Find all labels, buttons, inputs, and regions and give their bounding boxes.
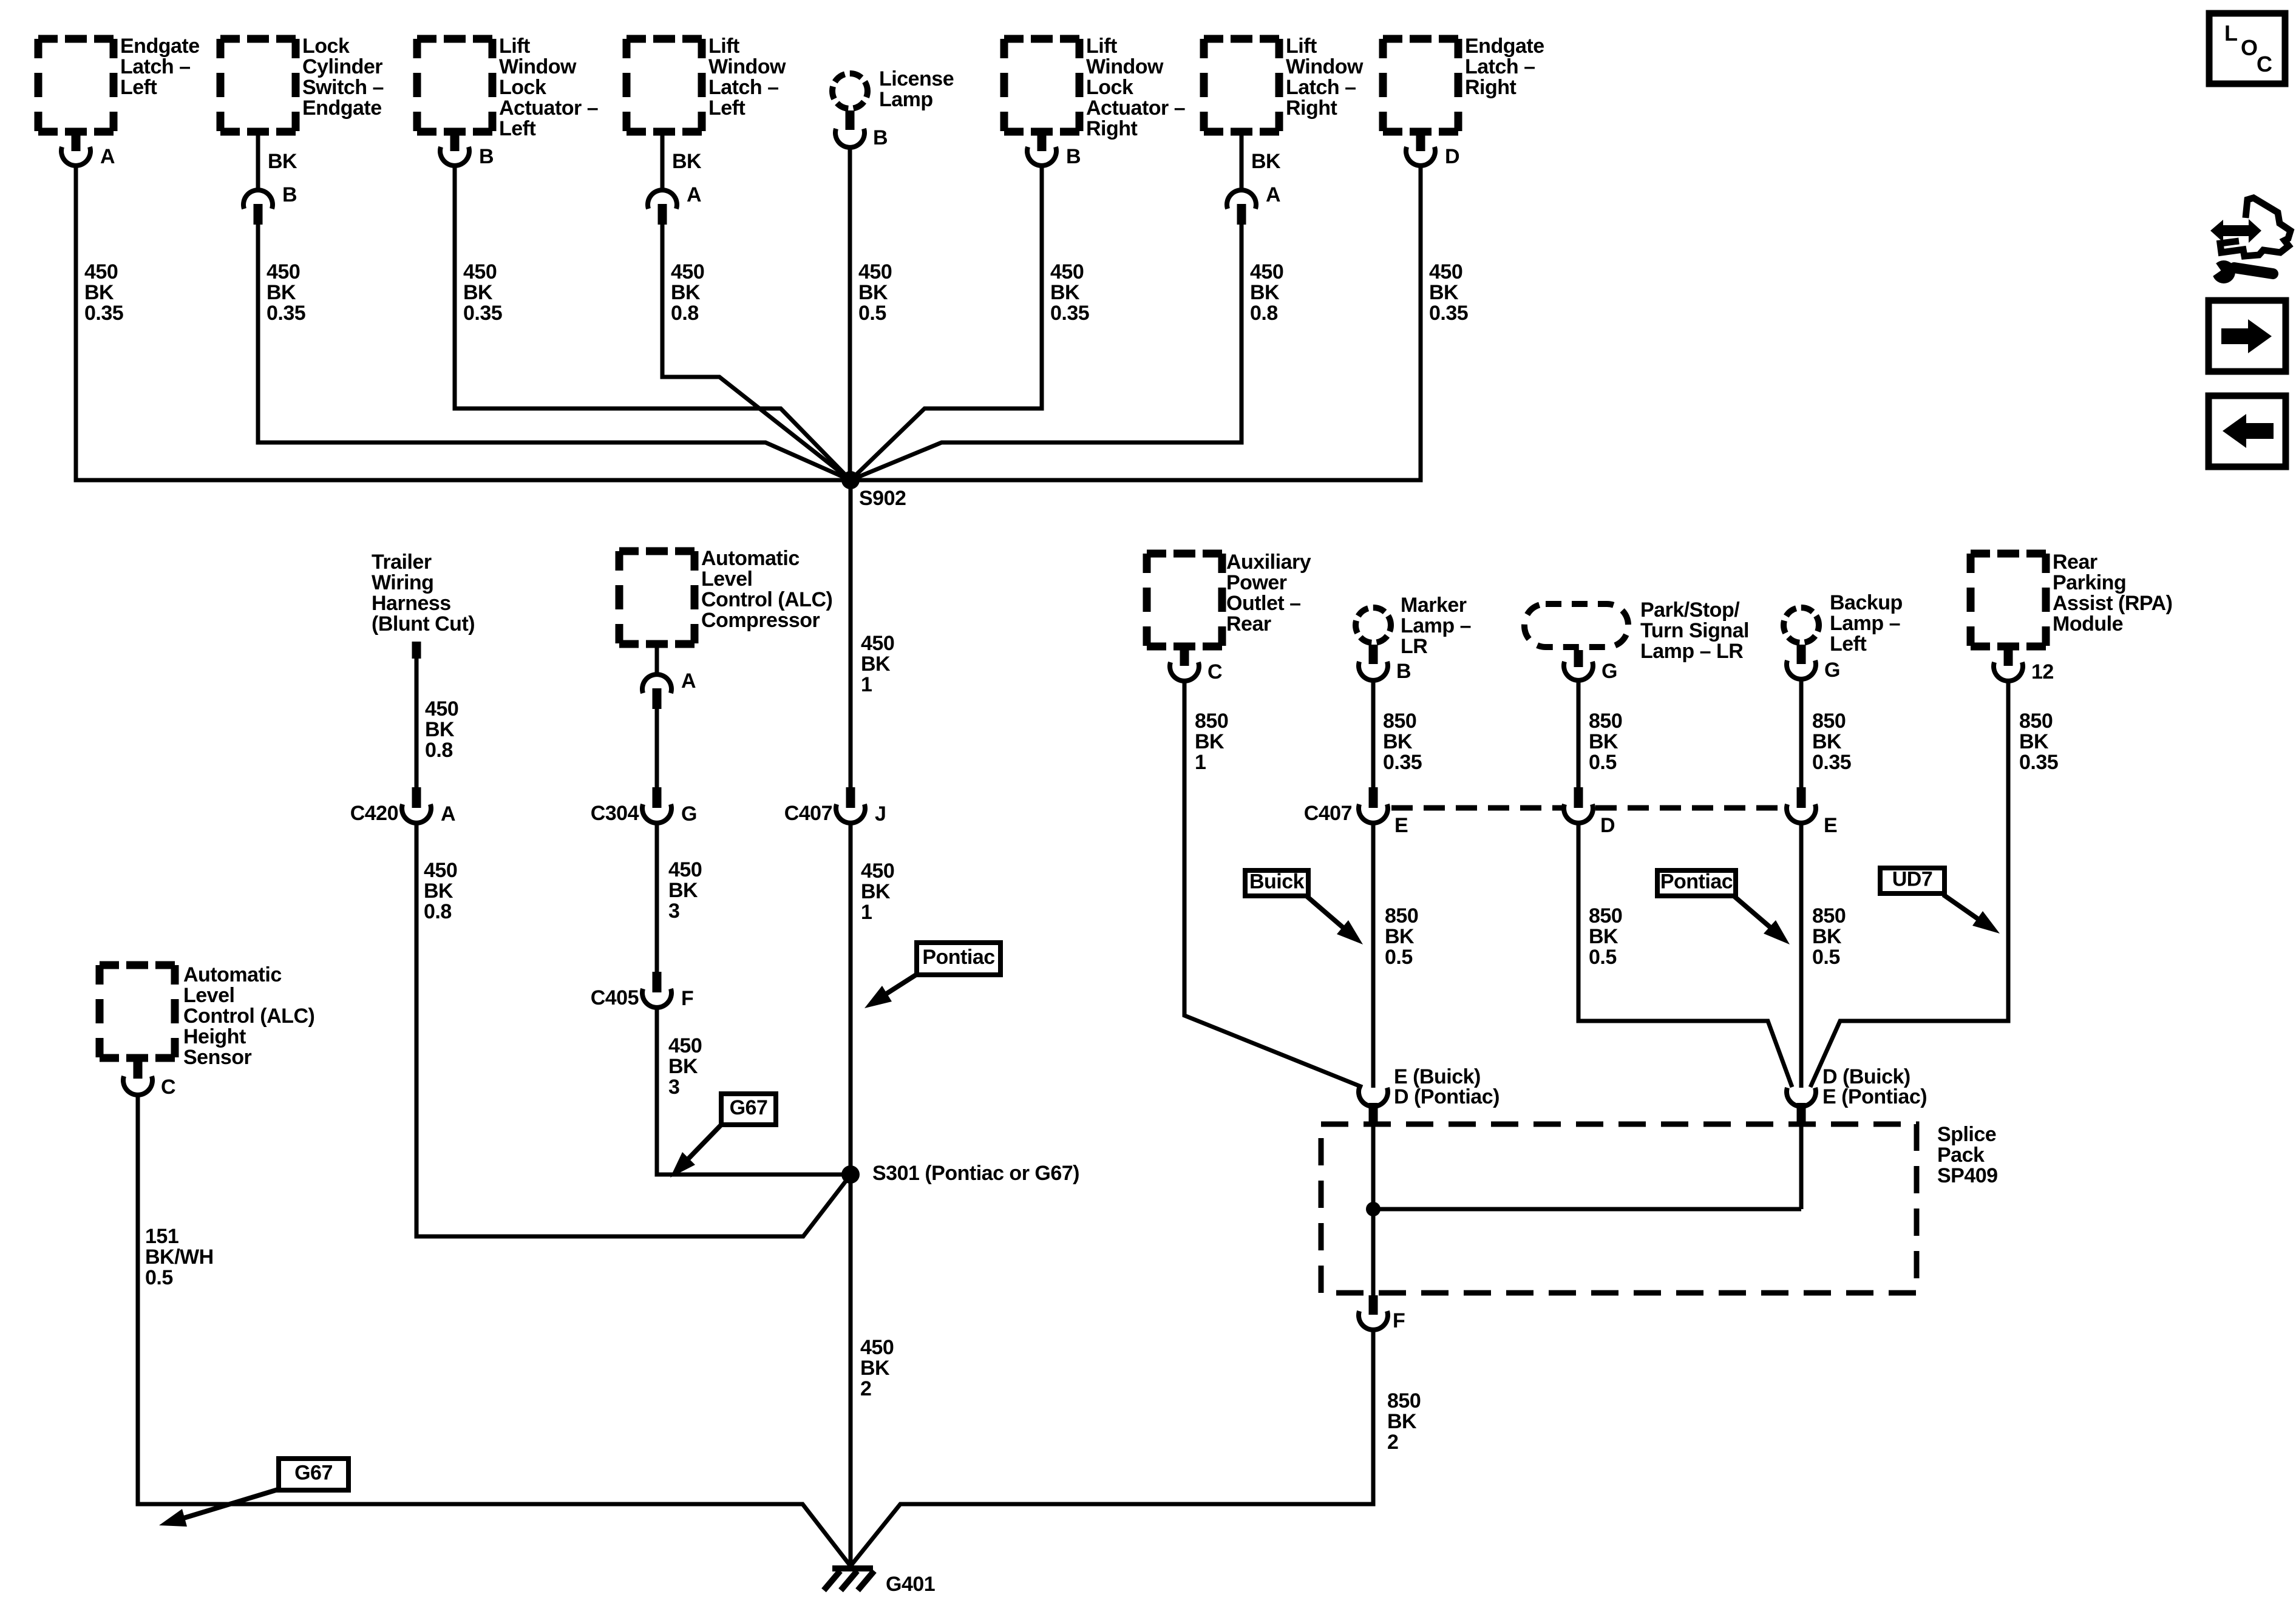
svg-text:Wiring: Wiring <box>372 571 433 594</box>
component box: Endgate Latch - Right <box>1383 35 1458 43</box>
svg-text:G401: G401 <box>886 1573 935 1596</box>
component box: Automatic Level Control (ALC) Height Sensor <box>100 961 175 969</box>
svg-text:0.5: 0.5 <box>1589 751 1617 774</box>
svg-text:Right: Right <box>1286 97 1337 120</box>
svg-text:Window: Window <box>499 55 577 78</box>
wire 450 BK (Lift Window Latch - Left) down to S902 <box>662 225 851 480</box>
svg-text:850: 850 <box>1812 710 1846 733</box>
svg-text:Harness: Harness <box>372 592 451 615</box>
blunt cut stub <box>412 642 421 659</box>
wire 450 BK (Endgate Latch - Left) down to S902 <box>76 166 851 480</box>
wire inside splice pack (left vertical) <box>1371 1125 1376 1297</box>
component box: Lift Window Latch - Right <box>1204 35 1279 43</box>
svg-text:Control (ALC): Control (ALC) <box>701 588 832 611</box>
svg-text:1: 1 <box>861 901 872 924</box>
svg-text:BK: BK <box>1251 150 1281 173</box>
svg-text:0.8: 0.8 <box>1250 302 1278 325</box>
svg-text:BK: BK <box>668 1055 698 1078</box>
svg-text:0.5: 0.5 <box>1385 946 1413 969</box>
svg-text:2: 2 <box>1387 1431 1398 1454</box>
svg-text:Park/Stop/: Park/Stop/ <box>1640 598 1740 622</box>
svg-text:Automatic: Automatic <box>701 547 800 570</box>
svg-text:Endgate: Endgate <box>1465 35 1544 58</box>
wire from Lock Cylinder Switch - Endgate <box>256 132 260 189</box>
svg-text:Assist (RPA): Assist (RPA) <box>2053 592 2172 615</box>
svg-text:850: 850 <box>1589 904 1622 927</box>
svg-text:Lift: Lift <box>499 35 530 58</box>
svg-text:BK: BK <box>861 880 891 903</box>
connector pin A of Lift Window Latch - Left (dome) <box>648 190 677 209</box>
connector pin A of Endgate Latch - Left <box>72 132 81 151</box>
component box: Endgate Latch - Left <box>38 35 114 43</box>
svg-text:0.5: 0.5 <box>1812 946 1840 969</box>
connector pin 12 of RPA Module <box>2004 646 2013 666</box>
svg-text:BK: BK <box>424 880 453 903</box>
svg-text:0.35: 0.35 <box>2019 751 2058 774</box>
svg-text:G67: G67 <box>730 1096 768 1119</box>
svg-text:S301 (Pontiac or G67): S301 (Pontiac or G67) <box>872 1162 1079 1185</box>
svg-text:Latch –: Latch – <box>1465 55 1535 78</box>
component box: Lift Window Latch - Left <box>627 35 702 43</box>
svg-text:0.8: 0.8 <box>425 739 453 762</box>
svg-text:BK: BK <box>1195 730 1224 753</box>
svg-text:Lift: Lift <box>708 35 739 58</box>
inline connector C407 pin E (marker lamp) <box>1369 787 1378 808</box>
svg-text:C: C <box>1207 660 1222 683</box>
svg-text:Left: Left <box>499 117 536 140</box>
svg-text:L: L <box>2224 21 2238 46</box>
svg-text:O: O <box>2241 35 2258 60</box>
svg-text:Cylinder: Cylinder <box>302 55 382 78</box>
svg-text:F: F <box>681 987 693 1010</box>
svg-text:BK: BK <box>1429 281 1459 304</box>
wire inside splice pack (right vertical) <box>1799 1125 1804 1209</box>
svg-text:A: A <box>441 802 455 825</box>
svg-text:BK: BK <box>860 1357 890 1380</box>
C407 connector dashed boundary line <box>1391 805 1563 811</box>
callout: Pontiac (right) <box>1657 870 1736 896</box>
svg-text:0.5: 0.5 <box>1589 946 1617 969</box>
svg-text:BK: BK <box>2019 730 2049 753</box>
svg-text:Rear: Rear <box>2053 551 2097 574</box>
wire 850 BK 0.5 from C407 D to splice-pack connector <box>1578 824 1792 1087</box>
svg-text:Lamp: Lamp <box>879 88 933 111</box>
svg-text:3: 3 <box>668 1076 679 1099</box>
wire 850 BK 0.35 from RPA Module to splice pack <box>1810 682 2008 1087</box>
callout: UD7 <box>1880 868 1944 893</box>
wire 450 BK 2 from S301 to ground G401 <box>849 1175 853 1566</box>
svg-text:Pack: Pack <box>1937 1144 1985 1167</box>
svg-text:C407: C407 <box>1304 802 1352 825</box>
svg-text:Lock: Lock <box>1086 76 1133 99</box>
svg-text:Control (ALC): Control (ALC) <box>183 1005 314 1028</box>
svg-text:Level: Level <box>183 984 234 1007</box>
icon: LOC box <box>2209 13 2285 84</box>
icon: back arrow box <box>2209 396 2286 467</box>
svg-text:BK: BK <box>861 653 891 676</box>
svg-text:D: D <box>1600 814 1615 837</box>
svg-text:E: E <box>1394 814 1408 837</box>
connector pin A of Lift Window Latch - Right (dome) <box>1227 190 1256 209</box>
arrow from Pontiac callout to wire <box>883 974 918 996</box>
wire 450 BK 1 from S902 to C407 pin J <box>849 480 853 789</box>
svg-text:B: B <box>1066 145 1081 168</box>
wire 450 BK 1 from C407 J to S301 <box>849 824 853 1175</box>
wire 850 BK 2 from F to ground G401 <box>851 1331 1373 1566</box>
inline connector C304 pin G <box>653 787 662 808</box>
svg-text:Buick: Buick <box>1249 870 1305 893</box>
svg-text:A: A <box>687 183 701 206</box>
svg-text:BK: BK <box>1385 925 1415 948</box>
svg-text:0.35: 0.35 <box>463 302 502 325</box>
component box: Automatic Level Control (ALC) Compressor <box>619 547 695 555</box>
svg-text:450: 450 <box>861 859 894 883</box>
splice pack SP409 dashed box <box>1321 1124 1917 1293</box>
svg-text:BK: BK <box>1387 1410 1417 1433</box>
svg-text:C: C <box>161 1076 175 1099</box>
component: License Lamp (dashed circle) <box>832 73 868 109</box>
connector pin B of Lift Window Lock Actuator - Left <box>450 132 460 151</box>
svg-text:Left: Left <box>120 76 157 99</box>
svg-text:A: A <box>1266 183 1280 206</box>
wire inside splice pack (horizontal) <box>1373 1207 1801 1212</box>
svg-text:G67: G67 <box>294 1462 333 1485</box>
svg-text:Module: Module <box>2053 612 2123 636</box>
svg-text:E: E <box>1824 814 1837 837</box>
svg-text:0.35: 0.35 <box>84 302 123 325</box>
svg-text:Window: Window <box>708 55 786 78</box>
svg-text:G: G <box>681 802 697 825</box>
svg-text:Lamp –: Lamp – <box>1401 614 1471 637</box>
svg-text:850: 850 <box>1589 710 1622 733</box>
connector pin A of ALC Compressor (dome) <box>642 674 671 693</box>
connector D (Buick) / E (Pontiac) into splice pack <box>1787 1088 1816 1107</box>
svg-text:Compressor: Compressor <box>701 609 820 632</box>
svg-text:Automatic: Automatic <box>183 963 282 986</box>
svg-text:Turn Signal: Turn Signal <box>1640 619 1749 642</box>
svg-text:Endgate: Endgate <box>120 35 200 58</box>
wire 450 BK (Lock Cylinder Switch - Endgate) down to S902 <box>258 225 851 480</box>
connector pin B of License Lamp <box>846 110 855 130</box>
svg-text:S902: S902 <box>859 487 906 510</box>
svg-text:450: 450 <box>424 859 457 882</box>
svg-text:C407: C407 <box>784 802 832 825</box>
svg-text:BK/WH: BK/WH <box>145 1246 214 1269</box>
connector pin G of Backup Lamp <box>1797 645 1806 664</box>
wire 850 BK 1 from Aux Power Outlet to splice pack <box>1184 682 1362 1087</box>
svg-text:BK: BK <box>1050 281 1080 304</box>
svg-text:E (Pontiac): E (Pontiac) <box>1822 1085 1927 1108</box>
svg-text:1: 1 <box>861 673 872 696</box>
svg-text:450: 450 <box>858 260 892 283</box>
callout: G67 (lower) <box>279 1459 348 1490</box>
svg-text:BK: BK <box>268 150 297 173</box>
svg-text:Trailer: Trailer <box>372 551 432 574</box>
svg-text:0.35: 0.35 <box>1383 751 1422 774</box>
svg-text:450: 450 <box>1429 260 1462 283</box>
svg-text:BK: BK <box>463 281 493 304</box>
svg-text:D (Pontiac): D (Pontiac) <box>1394 1085 1500 1108</box>
svg-text:LR: LR <box>1401 635 1427 658</box>
svg-text:Splice: Splice <box>1937 1123 1996 1146</box>
wire 450 BK (Lift Window Lock Actuator - Right) down to S902 <box>851 166 1042 480</box>
svg-text:BK: BK <box>1589 730 1618 753</box>
wire from Lift Window Latch - Right <box>1240 132 1244 189</box>
inline connector C420 pin A <box>412 787 421 808</box>
svg-text:Level: Level <box>701 568 752 591</box>
svg-text:12: 12 <box>2031 660 2054 683</box>
svg-text:450: 450 <box>668 858 702 881</box>
svg-text:Lamp –: Lamp – <box>1830 612 1900 635</box>
svg-text:450: 450 <box>860 1336 894 1359</box>
inline connector C407 pin E (backup lamp) <box>1797 787 1806 808</box>
component: Marker Lamp - LR (dashed circle) <box>1356 608 1391 643</box>
svg-text:0.8: 0.8 <box>671 302 699 325</box>
svg-text:D: D <box>1445 145 1459 168</box>
connector pin F below splice pack <box>1369 1295 1378 1315</box>
svg-text:G: G <box>1824 659 1840 682</box>
wire 450 BK (Lift Window Latch - Right) down to S902 <box>851 225 1241 480</box>
svg-text:3: 3 <box>668 900 679 923</box>
wire 151 BK/WH 0.5 from ALC Height Sensor to G401 <box>138 1096 851 1566</box>
wire 850 BK 0.5 (Park/Stop lamp) to C407 <box>1577 681 1581 789</box>
svg-text:Latch –: Latch – <box>120 55 191 78</box>
wire 450 BK (Lift Window Lock Actuator - Left) down to S902 <box>455 166 851 480</box>
wire 450 BK 3 from ALC Compressor to C304 <box>655 709 659 789</box>
splice junction inside SP409 <box>1366 1202 1381 1216</box>
component box: Lift Window Lock Actuator - Left <box>417 35 492 43</box>
svg-text:Lock: Lock <box>302 35 350 58</box>
svg-text:BK: BK <box>671 281 701 304</box>
svg-text:License: License <box>879 67 954 90</box>
svg-text:Left: Left <box>708 97 746 120</box>
wire 850 BK 0.5 from C407 E to splice-pack connector <box>1371 824 1376 1088</box>
svg-text:Height: Height <box>183 1025 246 1048</box>
callout: Pontiac (left) <box>917 943 1000 975</box>
svg-text:BK: BK <box>1812 730 1842 753</box>
connector pin B of Lift Window Lock Actuator - Right <box>1038 132 1047 151</box>
svg-text:450: 450 <box>267 260 300 283</box>
icon: forward arrow box <box>2209 300 2286 371</box>
svg-text:0.35: 0.35 <box>1812 751 1851 774</box>
component: Park/Stop/Turn Signal Lamp - LR (dashed capsule) <box>1524 604 1628 647</box>
svg-text:Window: Window <box>1086 55 1164 78</box>
svg-text:BK: BK <box>1589 925 1618 948</box>
wire 850 BK 0.35 (Backup Lamp) to C407 <box>1799 680 1804 789</box>
svg-text:G: G <box>1601 660 1617 683</box>
svg-text:Rear: Rear <box>1226 612 1271 636</box>
inline connector C405 pin F <box>653 972 662 992</box>
connector pin B of Lock Cylinder Switch - Endgate (dome) <box>243 190 273 209</box>
svg-text:Parking: Parking <box>2053 571 2126 594</box>
svg-text:BK: BK <box>1383 730 1413 753</box>
svg-text:Pontiac: Pontiac <box>1660 870 1733 893</box>
svg-text:Lock: Lock <box>499 76 546 99</box>
wire 850 BK 0.35 (Marker Lamp) to C407 <box>1371 681 1376 789</box>
splice junction S902 <box>841 471 860 489</box>
svg-text:Latch –: Latch – <box>1286 76 1356 99</box>
arrow from G67 callout to wire <box>180 1489 280 1519</box>
svg-text:Left: Left <box>1830 632 1867 656</box>
svg-text:450: 450 <box>425 697 458 720</box>
svg-text:Auxiliary: Auxiliary <box>1226 551 1311 574</box>
wire from ALC Compressor <box>655 644 659 675</box>
svg-text:Lift: Lift <box>1086 35 1117 58</box>
connector pin G of Park/Stop/Turn Signal Lamp <box>1574 650 1583 667</box>
svg-text:A: A <box>100 145 115 168</box>
svg-text:Window: Window <box>1286 55 1364 78</box>
svg-text:B: B <box>873 126 888 149</box>
svg-text:0.35: 0.35 <box>1429 302 1468 325</box>
connector pin C of ALC Height Sensor <box>134 1058 143 1079</box>
component: Backup Lamp - Left (dashed circle) <box>1784 608 1819 643</box>
svg-text:A: A <box>681 670 696 693</box>
svg-text:0.35: 0.35 <box>267 302 305 325</box>
svg-text:450: 450 <box>463 260 497 283</box>
wire 450 BK 0.5 (License Lamp) to S902 <box>848 148 852 480</box>
svg-text:BK: BK <box>1250 281 1280 304</box>
svg-text:850: 850 <box>1383 710 1416 733</box>
svg-text:850: 850 <box>1385 904 1418 927</box>
svg-text:Right: Right <box>1086 117 1138 140</box>
callout: Buick <box>1245 870 1308 896</box>
svg-text:450: 450 <box>671 260 704 283</box>
svg-text:850: 850 <box>1812 904 1846 927</box>
svg-text:B: B <box>479 145 494 168</box>
component box: Lift Window Lock Actuator - Right <box>1004 35 1079 43</box>
connector pin B of Marker Lamp <box>1369 645 1378 664</box>
svg-text:450: 450 <box>668 1034 702 1057</box>
svg-text:Outlet –: Outlet – <box>1226 592 1301 615</box>
svg-text:Backup: Backup <box>1830 591 1903 614</box>
svg-text:0.5: 0.5 <box>145 1266 173 1289</box>
svg-text:C304: C304 <box>591 802 639 825</box>
svg-text:SP409: SP409 <box>1937 1164 1998 1187</box>
svg-text:Switch –: Switch – <box>302 76 384 99</box>
wire 450 BK (Endgate Latch - Right) down to S902 <box>851 166 1421 480</box>
wire 450 BK 3 from C405 to S301 <box>657 1008 851 1175</box>
svg-text:Marker: Marker <box>1401 594 1467 617</box>
svg-text:(Blunt Cut): (Blunt Cut) <box>372 612 475 636</box>
svg-text:450: 450 <box>84 260 118 283</box>
svg-text:BK: BK <box>858 281 888 304</box>
callout: G67 <box>721 1094 776 1125</box>
component box: Rear Parking Assist (RPA) Module <box>1971 550 2046 558</box>
svg-text:850: 850 <box>2019 710 2053 733</box>
arrow from Buick callout to wire <box>1307 897 1347 931</box>
svg-text:BK: BK <box>84 281 114 304</box>
svg-text:0.5: 0.5 <box>858 302 886 325</box>
svg-text:C420: C420 <box>350 802 398 825</box>
wire 850 BK 0.5 from C407 E (backup) to splice-pack connector <box>1799 824 1804 1088</box>
svg-text:BK: BK <box>672 150 702 173</box>
svg-text:B: B <box>1396 660 1411 683</box>
svg-text:Latch –: Latch – <box>708 76 779 99</box>
component box: Auxiliary Power Outlet - Rear <box>1147 550 1222 558</box>
inline connector C407 pin D (park/stop lamp) <box>1574 787 1583 808</box>
svg-text:UD7: UD7 <box>1892 868 1933 891</box>
connector pin D of Endgate Latch - Right <box>1416 132 1425 151</box>
svg-text:850: 850 <box>1387 1389 1421 1412</box>
svg-text:BK: BK <box>1812 925 1842 948</box>
svg-text:Actuator –: Actuator – <box>1086 97 1185 120</box>
svg-text:BK: BK <box>668 879 698 902</box>
arrow from Pontiac callout to wire <box>1734 897 1773 930</box>
svg-text:450: 450 <box>1050 260 1084 283</box>
svg-text:151: 151 <box>145 1225 178 1248</box>
svg-text:0.35: 0.35 <box>1050 302 1089 325</box>
svg-text:Actuator –: Actuator – <box>499 97 598 120</box>
connector pin C of Auxiliary Power Outlet <box>1180 646 1189 666</box>
svg-text:B: B <box>282 183 297 206</box>
svg-text:Sensor: Sensor <box>183 1046 252 1069</box>
svg-text:Endgate: Endgate <box>302 97 382 120</box>
svg-text:450: 450 <box>1250 260 1283 283</box>
wire 450 BK 0.8 from C420 to S301 <box>416 824 848 1236</box>
svg-text:C: C <box>2257 52 2272 76</box>
wire from Lift Window Latch - Left <box>661 132 665 189</box>
splice junction S301 <box>841 1165 860 1184</box>
svg-text:450: 450 <box>861 632 894 655</box>
svg-text:0.8: 0.8 <box>424 900 452 923</box>
svg-text:BK: BK <box>267 281 296 304</box>
icon: service/hand with double arrow and wrench <box>2220 198 2291 256</box>
arrow from G67 callout to wire <box>685 1124 722 1162</box>
svg-text:J: J <box>875 802 886 825</box>
svg-text:BK: BK <box>425 718 455 741</box>
svg-text:Lamp – LR: Lamp – LR <box>1640 640 1743 663</box>
inline connector C407 pin J <box>846 787 855 808</box>
svg-text:F: F <box>1393 1309 1405 1332</box>
svg-text:Pontiac: Pontiac <box>922 946 994 969</box>
svg-text:Lift: Lift <box>1286 35 1317 58</box>
svg-text:C405: C405 <box>591 986 639 1009</box>
wire 450 BK 0.8 (trailer harness) to C420 <box>415 659 419 789</box>
svg-text:Power: Power <box>1226 571 1287 594</box>
svg-text:2: 2 <box>860 1377 871 1400</box>
connector E (Buick) / D (Pontiac) into splice pack <box>1359 1088 1388 1107</box>
wire 450 BK 3 from C304 to C405 <box>655 824 659 974</box>
arrow from UD7 callout to wire <box>1943 895 1982 921</box>
svg-text:Right: Right <box>1465 76 1517 99</box>
component box: Lock Cylinder Switch - Endgate <box>220 35 296 43</box>
svg-text:850: 850 <box>1195 710 1228 733</box>
ground symbol G401 <box>832 1565 873 1571</box>
svg-text:1: 1 <box>1195 751 1206 774</box>
